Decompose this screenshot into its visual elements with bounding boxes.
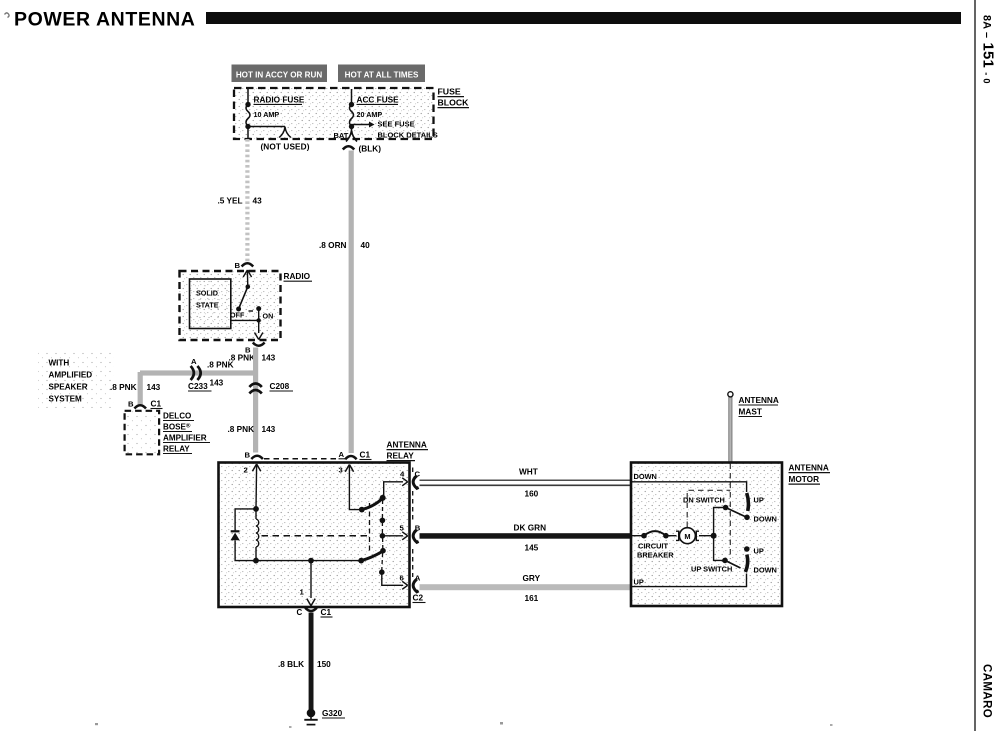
hot tag: HOT AT ALL TIMES: [338, 65, 425, 83]
svg-text:BREAKER: BREAKER: [637, 551, 674, 560]
svg-text:6: 6: [400, 574, 404, 583]
radio fuse F1: [247, 89, 249, 105]
svg-text:161: 161: [525, 594, 539, 603]
svg-text:.8 PNK: .8 PNK: [110, 383, 137, 392]
radio pin entry arrow: [243, 270, 251, 277]
dn-switch pole and arm: [723, 505, 729, 511]
radio switch node: [246, 284, 251, 289]
antenna mast: [729, 396, 732, 463]
svg-text:10 AMP: 10 AMP: [254, 110, 280, 119]
svg-text:A: A: [339, 450, 345, 459]
wire WHT 160: [420, 479, 632, 481]
svg-text:143: 143: [210, 379, 224, 388]
relay coil node top: [253, 506, 259, 512]
ON contact: [256, 306, 261, 311]
svg-text:4: 4: [400, 470, 405, 479]
wire .8 BLK 150: [309, 613, 314, 712]
(BLK) connector half: [343, 146, 354, 149]
svg-text:C233: C233: [188, 382, 208, 391]
page corner printing artifact: [5, 13, 10, 18]
svg-text:HOT AT ALL TIMES: HOT AT ALL TIMES: [345, 71, 419, 80]
svg-text:143: 143: [147, 383, 161, 392]
svg-text:B: B: [245, 451, 251, 460]
svg-text:RADIO FUSE: RADIO FUSE: [254, 96, 305, 105]
svg-text:.5 YEL: .5 YEL: [218, 197, 243, 206]
svg-text:2: 2: [244, 466, 248, 475]
svg-text:RELAY: RELAY: [163, 445, 190, 454]
ground G320: [307, 709, 316, 718]
svg-text:GRY: GRY: [523, 574, 541, 583]
svg-text:DOWN: DOWN: [754, 566, 777, 575]
svg-text:ACC FUSE: ACC FUSE: [357, 96, 400, 105]
svg-text:OFF: OFF: [230, 311, 245, 320]
title bar: [206, 12, 961, 24]
link to up-switch pole: [714, 536, 725, 561]
svg-text:UP SWITCH: UP SWITCH: [691, 565, 732, 574]
svg-text:1: 1: [300, 588, 305, 597]
svg-text:143: 143: [262, 425, 276, 434]
svg-text:(NOT USED): (NOT USED): [260, 143, 309, 152]
svg-text:A: A: [191, 357, 197, 366]
svg-text:ANTENNA: ANTENNA: [789, 464, 829, 473]
svg-text:143: 143: [262, 354, 276, 363]
wire GRY 161: [420, 584, 632, 590]
svg-text:WHT: WHT: [519, 468, 538, 477]
svg-text:STATE: STATE: [196, 301, 219, 310]
circuit breaker: [631, 535, 644, 537]
svg-text:BAT: BAT: [334, 131, 349, 140]
wire .8 PNK branch vertical: [138, 372, 143, 405]
svg-text:POWER ANTENNA: POWER ANTENNA: [14, 9, 196, 31]
svg-text:145: 145: [525, 544, 539, 553]
svg-text:.8 ORN: .8 ORN: [319, 241, 347, 250]
svg-text:40: 40: [361, 241, 371, 250]
hot tag: HOT IN ACCY OR RUN: [232, 65, 328, 83]
stipple patch near left note: [38, 352, 114, 408]
motor output junction: [711, 533, 717, 539]
wire .8 PNK branch horizontal: [140, 370, 257, 375]
svg-text:FUSE: FUSE: [438, 87, 461, 97]
up-switch UP contact: [744, 546, 750, 552]
svg-text:UP: UP: [754, 496, 764, 505]
svg-text:UP: UP: [634, 578, 644, 587]
svg-text:AMPLIFIER: AMPLIFIER: [163, 434, 207, 443]
wire DK GRN 145: [420, 533, 632, 539]
svg-text:SYSTEM: SYSTEM: [49, 395, 83, 404]
svg-text:M: M: [684, 532, 690, 541]
relay bottom bus wire: [256, 560, 361, 562]
svg-text:C1: C1: [151, 400, 162, 409]
svg-text:C1: C1: [360, 451, 371, 460]
pin C terminal jaw: [413, 476, 418, 489]
right margin rule: [974, 0, 975, 731]
svg-text:C2: C2: [413, 594, 424, 603]
solid state feed wire: [231, 319, 259, 321]
svg-text:C208: C208: [270, 382, 290, 391]
contact travel dashed line with contacts: [381, 500, 383, 519]
pin B terminal jaw: [413, 530, 418, 543]
radio switch arm: [239, 287, 248, 309]
page number 8A-151-0 (rotated): [980, 15, 997, 84]
svg-text:.8 PNK: .8 PNK: [207, 361, 234, 370]
pin 1 wire with exit arrow: [310, 561, 312, 598]
radio output wire with exit arrow: [258, 320, 260, 333]
wire .8 ORN 40: [349, 151, 354, 454]
antenna relay box: [219, 463, 410, 608]
connector C208: [249, 384, 261, 388]
BAT terminal fork: [346, 127, 357, 142]
pin 5 wire and arrow: [384, 535, 403, 537]
not-used terminal fork: [279, 127, 291, 138]
lower wiper arm: [358, 558, 364, 564]
motor M: [666, 535, 677, 537]
svg-text:C: C: [297, 608, 303, 617]
contact node down-travel: [380, 548, 386, 554]
svg-text:.8 BLK: .8 BLK: [278, 660, 304, 669]
connector C233: [191, 366, 194, 380]
page bottom specks: [95, 723, 98, 725]
svg-text:B: B: [235, 261, 241, 270]
down feed rail: [631, 482, 747, 492]
see fuse block details arrow: [353, 124, 371, 126]
antenna motor box: [631, 463, 782, 607]
svg-text:B: B: [128, 400, 134, 409]
diode CR1: [231, 530, 240, 532]
svg-text:20 AMP: 20 AMP: [357, 110, 383, 119]
delco bose amplifier relay box: [125, 411, 160, 455]
dn-switch UP contact (wiper pad): [747, 493, 749, 511]
svg-text:160: 160: [525, 490, 539, 499]
not-used branch wire: [248, 126, 285, 128]
svg-text:ANTENNA: ANTENNA: [739, 396, 779, 405]
svg-text:.8 PNK: .8 PNK: [228, 425, 255, 434]
relay pin A connector half: [345, 456, 356, 459]
relay coil node bottom: [253, 558, 259, 564]
svg-text:3: 3: [339, 466, 343, 475]
wire .5 YEL 43 (dotted): [245, 139, 249, 263]
up-switch pole and arm: [722, 558, 728, 564]
up feed rail: [631, 574, 747, 587]
relay pin 3 entry: [345, 465, 353, 472]
mast mechanical dashed link: [729, 464, 731, 560]
svg-text:SPEAKER: SPEAKER: [49, 383, 88, 392]
contact node pin5: [380, 533, 386, 539]
relay actuation dashed link: [262, 535, 370, 537]
pin 4 wire and arrow: [384, 482, 403, 496]
svg-text:SEE FUSE: SEE FUSE: [378, 120, 415, 129]
svg-text:BLOCK: BLOCK: [438, 98, 470, 108]
svg-text:DN SWITCH: DN SWITCH: [683, 496, 725, 505]
contact node pin6 side: [379, 569, 385, 575]
switch gang dashed link: [369, 503, 371, 554]
pin A terminal jaw: [413, 579, 418, 592]
radio bottom connector half: [253, 343, 265, 346]
svg-text:(BLK): (BLK): [359, 145, 382, 154]
upper wiper arm: [359, 507, 365, 513]
svg-text:RELAY: RELAY: [387, 452, 415, 461]
svg-text:G320: G320: [322, 709, 343, 718]
svg-text:DOWN: DOWN: [754, 515, 777, 524]
junction to pin 1: [308, 558, 314, 564]
solid state module: [190, 279, 231, 329]
svg-text:5: 5: [400, 524, 405, 533]
svg-text:CIRCUIT: CIRCUIT: [638, 542, 668, 551]
contact node up-travel: [380, 518, 386, 524]
svg-text:43: 43: [253, 197, 263, 206]
svg-text:HOT IN ACCY OR RUN: HOT IN ACCY OR RUN: [236, 71, 322, 80]
svg-text:BLOCK DETAILS: BLOCK DETAILS: [378, 131, 438, 140]
footer CAMARO (rotated): [981, 664, 993, 718]
svg-text:DOWN: DOWN: [634, 472, 657, 481]
svg-text:150: 150: [317, 660, 331, 669]
relay pin 2 entry: [252, 464, 260, 471]
svg-text:CAMARO: CAMARO: [981, 664, 993, 718]
svg-text:DELCO: DELCO: [163, 412, 191, 421]
fuse block box: [234, 88, 434, 139]
wire .8 PNK vertical run: [253, 348, 258, 453]
C1/C2 boundary dashed (right of relay): [412, 468, 414, 475]
pin 6 wire and arrow: [382, 572, 403, 585]
dn-switch DOWN contact: [744, 515, 750, 521]
svg-text:MAST: MAST: [739, 408, 762, 417]
svg-text:AMPLIFIED: AMPLIFIED: [49, 371, 93, 380]
svg-text:RADIO: RADIO: [284, 272, 311, 281]
svg-text:SOLID: SOLID: [196, 289, 218, 298]
svg-text:ANTENNA: ANTENNA: [387, 441, 427, 450]
svg-text:C1: C1: [321, 608, 332, 617]
up-switch DOWN contact (wiper pad): [745, 555, 747, 573]
radio box: [180, 271, 281, 340]
svg-text:UP: UP: [754, 547, 764, 556]
svg-text:WITH: WITH: [49, 359, 70, 368]
motor mechanical dashed link: [687, 490, 730, 527]
diode CR1 branch: [235, 509, 256, 531]
svg-text:DK GRN: DK GRN: [514, 524, 547, 533]
relay coil: [255, 509, 257, 519]
radio top connector half: [242, 263, 254, 266]
svg-text:ON: ON: [263, 312, 274, 321]
C1 connector boundary (dashed): [264, 458, 336, 460]
contact node pin4 side: [380, 495, 386, 501]
svg-text:MOTOR: MOTOR: [789, 475, 820, 484]
acc fuse F2: [351, 89, 353, 105]
